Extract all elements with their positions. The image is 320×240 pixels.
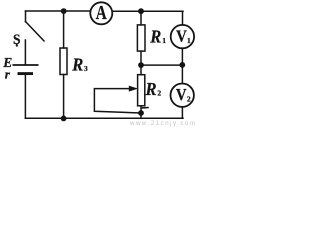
svg-text:1: 1 [162,36,166,45]
svg-text:R: R [149,27,161,47]
svg-text:V: V [176,28,187,46]
svg-text:2: 2 [187,94,191,103]
svg-text:1: 1 [187,36,191,45]
svg-text:R: R [71,55,83,75]
svg-text:2: 2 [157,88,161,97]
svg-text:R: R [145,79,157,99]
svg-text:www.21cnjy.com: www.21cnjy.com [129,120,195,127]
svg-text:3: 3 [84,64,88,73]
svg-text:A: A [96,1,107,23]
svg-text:V: V [176,86,187,104]
